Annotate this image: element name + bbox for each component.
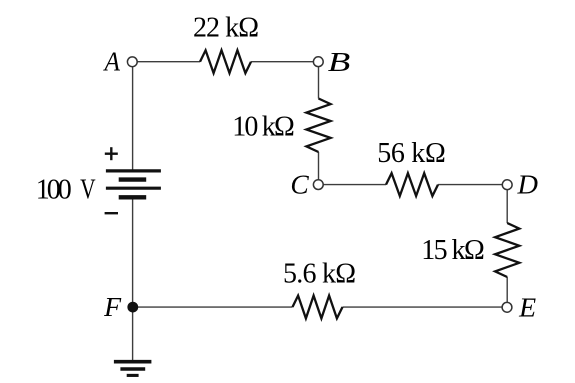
svg-text:D: D <box>517 169 539 200</box>
svg-text:C: C <box>290 169 309 200</box>
svg-text:100: 100 <box>36 174 72 205</box>
svg-text:V: V <box>80 174 96 205</box>
svg-text:56 kΩ: 56 kΩ <box>377 138 446 169</box>
svg-text:5.6 kΩ: 5.6 kΩ <box>283 258 356 289</box>
svg-text:F: F <box>103 291 122 322</box>
svg-text:22 kΩ: 22 kΩ <box>193 13 259 44</box>
svg-text:B: B <box>328 46 351 77</box>
svg-text:E: E <box>518 292 536 323</box>
svg-text:A: A <box>103 46 121 77</box>
svg-text:10 kΩ: 10 kΩ <box>232 112 295 143</box>
svg-text:15 kΩ: 15 kΩ <box>421 235 485 266</box>
